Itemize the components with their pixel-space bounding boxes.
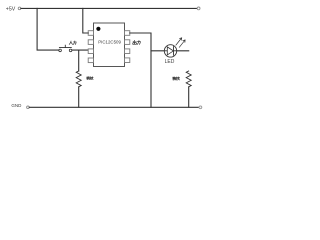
IC pin 8 box (right top) — [125, 31, 130, 36]
IC pin 5 box (right bottom) — [125, 58, 130, 63]
IC pin 4 box (left bottom) — [88, 58, 93, 63]
terminal +5V — [18, 7, 21, 10]
LED D1 — [164, 45, 176, 57]
wire IC pin8 to LED branch — [130, 33, 151, 107]
IC pin 3 box (left) — [88, 49, 93, 54]
svg-text:LED: LED — [165, 59, 175, 65]
IC pin 2 box (left) — [88, 40, 93, 45]
IC U1 PIC12C509 body — [94, 23, 125, 67]
IC pin 1 box (left top) — [88, 31, 93, 36]
wire LED branch horizontal — [151, 50, 189, 52]
svg-text:+5V: +5V — [6, 7, 16, 13]
IC pin1 marker dot — [96, 27, 100, 31]
IC pin 7 box (right) — [125, 40, 130, 45]
terminal bottom right — [199, 106, 202, 109]
wire +5V rail to switch (vertical drop) — [37, 8, 59, 50]
label resistor left (teikou) — [87, 77, 93, 80]
wire bottom GND rail — [29, 106, 199, 108]
LED emission arrow 1 — [176, 38, 182, 45]
LED emission arrow 2 — [179, 40, 185, 47]
IC pin 6 box (right) — [125, 49, 130, 54]
terminal top right — [197, 7, 200, 10]
switch S1 push button — [59, 45, 72, 52]
label input (nyuuryoku) — [69, 41, 76, 44]
wire +5V rail to IC pin1 — [83, 8, 88, 33]
label resistor right (teikou) — [173, 77, 180, 80]
svg-text:GND: GND — [11, 103, 22, 108]
svg-text:PIC12C509: PIC12C509 — [98, 40, 121, 45]
terminal GND left — [27, 106, 30, 109]
wire switch to IC pin3 — [72, 49, 88, 51]
label output (shutsuryoku) — [133, 41, 141, 45]
resistor R2 — [186, 71, 191, 107]
resistor R1 — [76, 50, 81, 107]
wire top +5V rail — [21, 7, 197, 9]
